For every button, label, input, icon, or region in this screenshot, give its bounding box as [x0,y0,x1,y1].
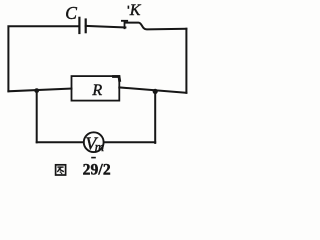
wire: middle left segment [8,89,71,92]
wire: right branch vertical down to voltmeter loop [154,91,156,142]
stray speck left of K [128,6,130,9]
stray speck below voltmeter [91,157,96,159]
svg-text:m: m [95,139,104,154]
capacitor C left plate [78,18,80,33]
caption character 图 (drawn) [56,165,66,175]
capacitor C right plate [85,20,87,33]
resistor R box [72,76,120,101]
wire: right vertical of outer loop [185,29,187,93]
svg-text:C: C [65,3,77,23]
node: left junction dot [34,88,39,93]
wire: voltmeter to bottom right [104,141,156,143]
wire: left branch vertical down to voltmeter loop [36,91,38,143]
svg-text:K: K [129,2,142,19]
wire: bottom left to voltmeter [37,141,84,143]
voltmeter U (circle) [84,132,104,152]
wire: capacitor to switch [86,26,126,28]
resistor box corner thickening (scan artifact) [114,77,120,81]
node: right junction dot [153,89,158,94]
wire: top-left horizontal and left vertical of outer loop [8,26,79,91]
svg-text:R: R [91,82,102,99]
svg-text:29/2: 29/2 [83,162,111,179]
switch K blade and top-right wire [126,23,187,30]
switch K fixed contact (T tick) [122,21,127,28]
wire: middle right segment [119,87,186,92]
